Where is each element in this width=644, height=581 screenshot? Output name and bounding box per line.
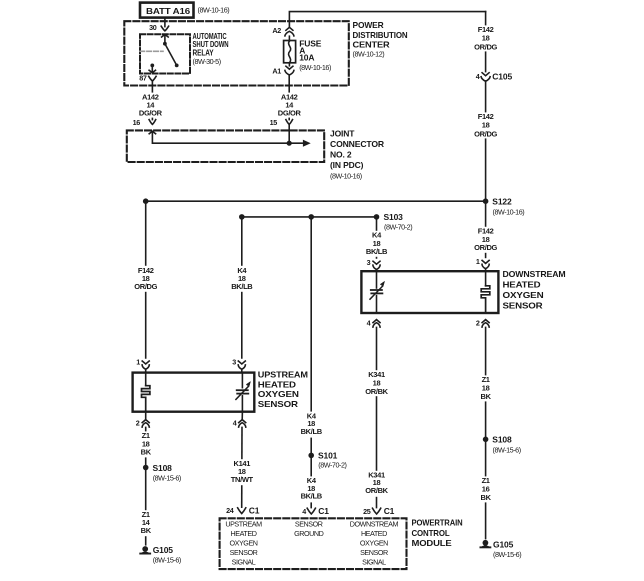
node junction dot K4 middle [308, 214, 314, 220]
upstream sensor pin 4 connector [233, 412, 246, 428]
label K341 18 OR/BK upper [365, 370, 388, 396]
label K341 18 OR/BK lower [365, 471, 388, 497]
label F142 18 OR/DG above downstream pin 1 [474, 227, 497, 253]
connector C1 pin 24 [226, 505, 260, 515]
wire K141 upstream pin 4 to PCM C1 pin 24 [241, 427, 243, 507]
downstream sensing element variable resistor [370, 271, 385, 313]
svg-text:4: 4 [367, 319, 371, 328]
svg-text:BK/LB: BK/LB [301, 427, 323, 436]
wire K4 S101 to PCM C1 pin 4 [310, 455, 312, 507]
downstream sensor pin 2 connector [476, 319, 489, 328]
wire F142 bus from left column to S122 [146, 200, 486, 202]
svg-text:GROUND: GROUND [294, 529, 324, 538]
svg-text:SENSOR: SENSOR [258, 399, 298, 409]
svg-text:BK/LB: BK/LB [231, 282, 253, 291]
svg-text:(8W-70-2): (8W-70-2) [384, 223, 412, 232]
svg-text:RELAY: RELAY [193, 47, 214, 57]
svg-text:C105: C105 [492, 72, 512, 82]
relay pin 30 terminal [149, 23, 169, 32]
connector C105 [476, 72, 513, 82]
svg-text:SIGNAL: SIGNAL [232, 557, 256, 566]
wire F142 top right drop to C105 [485, 12, 487, 72]
svg-text:BK: BK [141, 448, 152, 457]
svg-text:1: 1 [136, 357, 140, 366]
downstream heater element [481, 271, 490, 313]
svg-text:S122: S122 [492, 197, 512, 207]
label K4 18 BK/LB upstream [231, 266, 253, 292]
svg-text:HEATED: HEATED [258, 379, 296, 389]
svg-text:DISTRIBUTION: DISTRIBUTION [353, 30, 408, 40]
svg-text:(8W-15-6): (8W-15-6) [153, 473, 181, 482]
label F142 18 OR/DG middle right [474, 112, 497, 138]
svg-text:4: 4 [302, 507, 306, 516]
node BATT A16 feed box [140, 3, 229, 18]
downstream heated oxygen sensor box [361, 269, 565, 313]
wire K4 down to upstream sensor pin 3 [241, 217, 243, 358]
svg-text:HEATED: HEATED [231, 529, 257, 538]
svg-text:(8W-15-6): (8W-15-6) [493, 550, 521, 559]
svg-text:OXYGEN: OXYGEN [503, 290, 544, 300]
svg-text:SENSOR: SENSOR [503, 300, 543, 310]
wire K4 down from middle dot to S101 [310, 217, 312, 453]
svg-text:(8W-70-2): (8W-70-2) [318, 461, 346, 470]
svg-text:OXYGEN: OXYGEN [360, 538, 388, 547]
downstream sensor pin 4 connector [367, 319, 381, 328]
upstream sensing element variable resistor [236, 373, 251, 412]
label K4 18 BK/LB downstream [366, 231, 388, 257]
fuse A 10A [284, 36, 331, 72]
svg-text:OR/BK: OR/BK [365, 486, 388, 495]
wire Z1 S108 to G105 left [145, 468, 147, 545]
svg-text:SIGNAL: SIGNAL [362, 557, 386, 566]
splice S108 left [143, 463, 181, 483]
svg-text:CENTER: CENTER [353, 40, 390, 50]
upstream heater element [142, 373, 150, 412]
svg-text:DG/OR: DG/OR [278, 108, 302, 117]
svg-text:A2: A2 [272, 26, 281, 35]
connector C1 pin 4 [302, 506, 329, 516]
label K141 18 TN/WT [231, 459, 254, 485]
svg-text:3: 3 [232, 357, 236, 366]
svg-text:POWER: POWER [353, 20, 384, 30]
upstream sensor pin 3 connector [232, 357, 245, 372]
splice S101 [308, 451, 346, 470]
svg-text:SENSOR: SENSOR [230, 548, 258, 557]
svg-text:(8W-10-12): (8W-10-12) [353, 49, 385, 58]
label F142 18 OR/DG left column [134, 266, 157, 292]
fuse pin A1 connector [272, 63, 293, 76]
svg-text:BATT A16: BATT A16 [146, 6, 190, 16]
svg-text:BK: BK [481, 392, 492, 401]
label F142 18 OR/DG top right [474, 25, 497, 51]
svg-text:UPSTREAM: UPSTREAM [258, 369, 308, 379]
svg-text:DOWNSTREAM: DOWNSTREAM [503, 269, 566, 279]
svg-text:S108: S108 [153, 463, 173, 473]
label Z1 16 BK right [475, 476, 497, 502]
svg-text:G105: G105 [493, 539, 514, 549]
svg-text:2: 2 [136, 419, 140, 428]
wire A142 relay 87 to joint connector pin 16 [151, 81, 153, 120]
wire K341 downstream pin 4 to PCM C1 pin 25 [376, 327, 378, 507]
svg-text:(8W-10-16): (8W-10-16) [493, 207, 525, 216]
svg-text:OXYGEN: OXYGEN [229, 538, 257, 547]
svg-text:OR/DG: OR/DG [474, 243, 497, 252]
svg-text:(8W-15-6): (8W-15-6) [493, 445, 521, 454]
relay pin 87 terminal [139, 74, 156, 83]
joint connector pin 15 terminal [270, 118, 293, 127]
svg-text:25: 25 [363, 507, 371, 516]
svg-text:(IN PDC): (IN PDC) [330, 160, 364, 170]
svg-text:MODULE: MODULE [412, 538, 453, 548]
wire F142 down to upstream sensor pin 1 [145, 201, 147, 358]
svg-text:(8W-15-6): (8W-15-6) [153, 556, 181, 565]
wire K4 bus line [242, 216, 377, 218]
svg-text:S103: S103 [384, 212, 404, 222]
wire Z1 S108 to G105 right [485, 439, 487, 538]
svg-text:BK/LB: BK/LB [366, 247, 388, 256]
label K4 18 BK/LB below S101 [301, 476, 323, 502]
connector C1 pin 25 [363, 506, 395, 516]
svg-text:30: 30 [149, 23, 157, 32]
downstream sensor pin 3 connector [367, 258, 381, 271]
svg-text:NO. 2: NO. 2 [330, 150, 352, 160]
svg-text:4: 4 [233, 419, 237, 428]
upstream sensor pin 2 connector [136, 412, 150, 428]
svg-text:JOINT: JOINT [330, 129, 355, 139]
fuse pin A2 connector [272, 26, 293, 36]
svg-text:(8W-30-5): (8W-30-5) [193, 57, 221, 66]
svg-text:24: 24 [226, 506, 234, 515]
svg-text:A1: A1 [272, 66, 281, 75]
svg-text:OR/DG: OR/DG [134, 282, 157, 291]
svg-text:POWERTRAIN: POWERTRAIN [412, 518, 463, 528]
svg-text:BK: BK [481, 493, 492, 502]
wire Z1 downstream pin 2 to S108 right [485, 327, 487, 439]
svg-text:BK: BK [141, 526, 152, 535]
svg-text:OR/BK: OR/BK [365, 387, 388, 396]
joint connector pin 16 terminal [133, 118, 156, 127]
svg-text:DG/OR: DG/OR [139, 108, 163, 117]
svg-text:18: 18 [482, 34, 490, 43]
label A142 14 DG/OR left [139, 92, 163, 117]
node upstream signal label in PCM [225, 519, 262, 566]
splice S122 [483, 197, 524, 217]
svg-text:SENSOR: SENSOR [295, 519, 323, 528]
svg-text:DOWNSTREAM: DOWNSTREAM [350, 519, 399, 528]
node junction dot left F142 [143, 198, 149, 204]
wire Z1 upstream pin 2 to S108 left [145, 427, 147, 467]
svg-text:S108: S108 [492, 435, 512, 445]
svg-text:TN/WT: TN/WT [231, 475, 254, 484]
label K4 18 BK/LB above S101 [301, 411, 323, 437]
power distribution center box [124, 20, 407, 85]
svg-text:(8W-10-16): (8W-10-16) [198, 6, 230, 15]
node junction dot K4 left [239, 214, 245, 220]
svg-text:SENSOR: SENSOR [360, 548, 388, 557]
splice S108 right [483, 435, 521, 455]
joint connector internal bus wire with arrow [149, 125, 310, 147]
node downstream signal label in PCM [350, 519, 399, 566]
node sensor ground label in PCM [294, 519, 324, 538]
svg-text:1: 1 [476, 257, 480, 266]
svg-text:BK/LB: BK/LB [301, 491, 323, 500]
relay box automatic shut down relay [140, 31, 229, 74]
wire F142 C105 down to S122 [485, 81, 487, 201]
svg-text:15: 15 [270, 118, 278, 127]
svg-text:2: 2 [476, 319, 480, 328]
svg-text:C1: C1 [318, 506, 329, 516]
upstream heated oxygen sensor box [133, 369, 308, 411]
splice S103 [374, 212, 413, 231]
svg-text:87: 87 [139, 74, 147, 83]
svg-text:4: 4 [476, 72, 480, 81]
svg-text:G105: G105 [153, 545, 174, 555]
label Z1 14 BK left [135, 510, 157, 536]
svg-text:3: 3 [367, 258, 371, 267]
label A142 14 DG/OR right [278, 92, 302, 117]
label Z1 18 BK right [475, 375, 497, 401]
wire A142 fuse A1 to joint connector pin 15 [288, 75, 290, 120]
svg-text:C1: C1 [384, 506, 395, 516]
svg-text:(8W-10-16): (8W-10-16) [299, 63, 331, 72]
svg-text:10A: 10A [299, 53, 314, 63]
svg-text:UPSTREAM: UPSTREAM [225, 519, 262, 528]
ground G105 left [139, 545, 181, 564]
downstream sensor pin 1 connector [476, 201, 489, 271]
upstream sensor pin 1 connector [136, 357, 149, 372]
svg-text:16: 16 [133, 118, 141, 127]
svg-text:OXYGEN: OXYGEN [258, 389, 299, 399]
svg-text:S101: S101 [318, 451, 338, 461]
wire K4 S103 down to downstream sensor pin 3 [376, 217, 378, 258]
svg-text:HEATED: HEATED [361, 529, 387, 538]
svg-text:HEATED: HEATED [503, 280, 541, 290]
ground G105 right [480, 539, 522, 559]
svg-text:(8W-10-16): (8W-10-16) [330, 171, 362, 180]
svg-text:OR/DG: OR/DG [474, 42, 497, 51]
relay internal switch contacts [149, 35, 179, 73]
powertrain control module box [220, 518, 463, 570]
svg-text:C1: C1 [249, 505, 260, 515]
joint connector no. 2 box [127, 129, 384, 181]
svg-text:CONTROL: CONTROL [412, 528, 450, 538]
wire BATT A16 to relay pin 30 [164, 18, 166, 27]
svg-text:CONNECTOR: CONNECTOR [330, 139, 384, 149]
svg-text:OR/DG: OR/DG [474, 129, 497, 138]
wire fuse A2 up and right to F142 drop [289, 12, 485, 28]
label Z1 18 BK left [135, 431, 157, 457]
svg-text:18: 18 [482, 121, 490, 130]
